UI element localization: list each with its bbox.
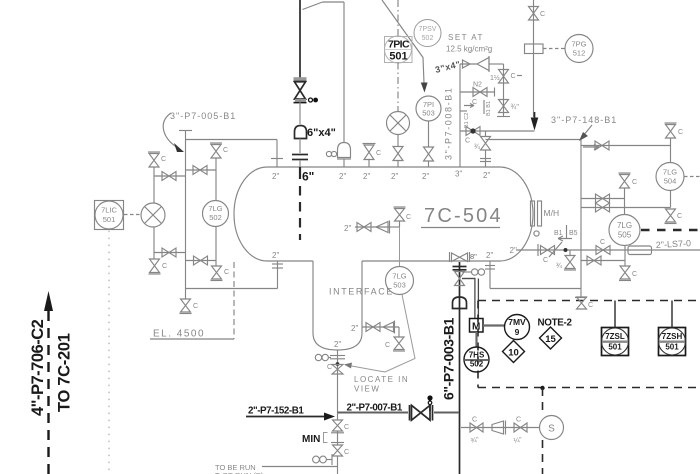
instrument 7LG 503	[386, 267, 414, 295]
svg-text:10: 10	[508, 347, 519, 358]
valve gate upper tap 7LG502	[186, 166, 217, 175]
svg-text:501: 501	[608, 343, 622, 352]
valve gate lower tap 7LIC	[154, 248, 186, 257]
signal wire 7LIC to displacer	[124, 214, 141, 216]
svg-text:501: 501	[103, 215, 116, 224]
valve gate right outlet	[541, 246, 555, 265]
valve gate nozzle x398	[393, 135, 403, 168]
wire riser below valve	[299, 98, 301, 124]
valve capped C interface upper	[389, 207, 411, 227]
svg-text:7HS: 7HS	[469, 351, 485, 360]
wire psv outlet	[489, 63, 504, 65]
valve 1-1/2 C	[490, 70, 522, 84]
valve capped C vent x670	[665, 123, 684, 163]
signal wire dash-dot 7PIC to valve	[397, 63, 399, 112]
svg-text:2": 2"	[339, 172, 346, 181]
valve boot drain	[327, 364, 343, 374]
wire top tap y139 to nozzle	[186, 139, 278, 141]
wire 7LG504 lower leg	[670, 191, 672, 208]
svg-text:6": 6"	[302, 170, 314, 184]
svg-text:C: C	[162, 263, 167, 270]
instrument 7LG 502	[203, 201, 229, 227]
wire 7LG505 drain leg	[624, 246, 626, 267]
svg-text:¾: ¾	[556, 263, 562, 270]
valve capped C 7LG505 drain	[619, 266, 637, 281]
svg-text:C: C	[632, 271, 637, 278]
reducer cone test line	[492, 421, 506, 435]
signal wire dash-dot 7PIC above	[397, 0, 399, 36]
svg-text:3": 3"	[455, 170, 462, 179]
wire diagonal top	[382, 0, 424, 83]
wire check valve header y131	[460, 130, 535, 132]
svg-text:2": 2"	[334, 340, 341, 349]
internal dip pipe 6in dashed	[299, 167, 301, 240]
svg-text:2"-LS7-0: 2"-LS7-0	[656, 238, 692, 250]
svg-text:C: C	[465, 138, 470, 145]
switch 7ZSH 501	[659, 301, 686, 356]
svg-text:C: C	[543, 257, 548, 264]
valve 8in flush bottom	[450, 252, 478, 262]
wire to be run	[215, 463, 338, 474]
svg-text:2": 2"	[422, 172, 429, 181]
svg-text:B1 B1: B1 B1	[486, 101, 492, 116]
svg-text:S: S	[548, 424, 555, 435]
svg-text:C: C	[472, 417, 477, 424]
svg-text:2": 2"	[486, 251, 493, 260]
svg-text:N2: N2	[473, 82, 482, 89]
valve gate nozzle x428	[424, 121, 434, 167]
svg-text:C: C	[406, 214, 411, 221]
junction node boot drain	[336, 362, 340, 366]
svg-text:¾: ¾	[474, 144, 480, 151]
svg-text:2": 2"	[272, 251, 279, 260]
signal wire to 7PG512	[543, 48, 565, 50]
vessel boot	[313, 261, 362, 350]
svg-text:C: C	[376, 150, 381, 157]
vessel tag 7C-504	[421, 205, 503, 228]
wire 1.5in bypass vertical	[503, 64, 505, 117]
svg-text:7MV: 7MV	[508, 317, 526, 327]
svg-text:2"-P7-007-B1: 2"-P7-007-B1	[347, 403, 403, 414]
spectacle blind 6in	[462, 269, 485, 275]
svg-text:501: 501	[665, 343, 679, 352]
svg-text:7PSV: 7PSV	[419, 26, 437, 33]
wire upper tap y145	[581, 145, 671, 147]
instrument 7PIC 501 shared display	[385, 36, 413, 63]
svg-text:2": 2"	[510, 246, 517, 255]
instrument 7LG 505	[609, 215, 640, 246]
valve C 3/4 test	[470, 417, 483, 445]
svg-text:B5: B5	[569, 230, 578, 237]
valve MOV body on 6in line	[455, 272, 465, 286]
valve gate 2in main dark	[410, 395, 433, 420]
nozzle N1 2in	[271, 140, 283, 168]
svg-text:3"-P7-008-B1: 3"-P7-008-B1	[444, 87, 454, 160]
svg-text:MIN: MIN	[302, 434, 320, 445]
svg-text:7LIC: 7LIC	[101, 206, 117, 215]
svg-text:7PG: 7PG	[571, 40, 586, 49]
signal wire dashed solenoid	[542, 388, 544, 474]
valve C on flare header	[529, 7, 546, 21]
svg-text:NOTE-2: NOTE-2	[538, 318, 573, 329]
valve C 1/4 test	[513, 417, 527, 445]
wire vessel 2in outlet right	[516, 249, 700, 251]
note diamond 15	[540, 327, 562, 349]
svg-text:2": 2"	[391, 172, 398, 181]
svg-text:¾": ¾"	[511, 104, 520, 111]
svg-text:2": 2"	[272, 172, 279, 181]
wire 3in P7-008-B1 riser	[459, 64, 461, 167]
inline flame arrestor	[628, 246, 652, 255]
svg-text:1½: 1½	[490, 74, 500, 82]
flange tick right outlet	[537, 244, 539, 256]
svg-text:C: C	[677, 213, 682, 220]
signal wire bold dashed from 7LG505	[641, 229, 700, 232]
wire flare header x533	[533, 0, 535, 117]
flange pair on 6in line	[453, 267, 467, 270]
wire 7LG502 lower leg	[215, 227, 217, 267]
actuator M box	[470, 319, 484, 333]
valve capped C bottom of 7LIC leg	[149, 259, 168, 274]
svg-text:7LG: 7LG	[617, 221, 632, 230]
relief valve PSV 3x4	[460, 56, 489, 72]
svg-text:7LG: 7LG	[392, 272, 406, 281]
valve capped 3/4 drain below junction	[556, 250, 576, 270]
svg-text:C: C	[223, 147, 228, 154]
svg-text:LOCATE IN: LOCATE IN	[354, 375, 409, 384]
flange pair 6in nozzle dark	[292, 155, 308, 168]
inline orifice box	[525, 44, 544, 54]
wire 6in pump suction bold	[459, 262, 461, 474]
svg-text:2": 2"	[483, 171, 490, 180]
small nozzle circle on head	[534, 231, 539, 236]
leader arrow to standpipe	[163, 113, 184, 152]
svg-text:7PIC: 7PIC	[388, 39, 410, 51]
svg-text:3"-P7-005-B1: 3"-P7-005-B1	[170, 111, 236, 121]
spec break B1 B5	[549, 225, 578, 257]
note diamond 10	[503, 341, 525, 363]
wire to 7LG503	[399, 227, 401, 266]
svg-text:7LG: 7LG	[208, 204, 222, 213]
valve gate upper tap 7LIC	[154, 172, 186, 181]
svg-text:502: 502	[209, 213, 222, 222]
svg-text:C: C	[224, 269, 229, 276]
valve capped C min flow 1	[333, 413, 350, 432]
svg-text:VIEW: VIEW	[354, 385, 380, 394]
svg-text:9: 9	[515, 327, 520, 337]
svg-text:6"x4": 6"x4"	[307, 127, 336, 139]
signal wire dotted 7LIC down	[108, 231, 110, 474]
valve gate middle tap	[596, 194, 610, 203]
svg-text:C: C	[327, 364, 332, 371]
valve capped C top of 7LG502 leg	[210, 143, 228, 201]
wire right level standpipe	[575, 140, 587, 298]
wire 3in P7-148-B1 header y139	[486, 139, 582, 141]
valve gate upper tap	[595, 141, 609, 150]
instrument 7LG 504	[656, 163, 700, 191]
valve capped C drain x670	[665, 209, 683, 224]
svg-text:505: 505	[618, 231, 632, 240]
control valve 7PV circle-X	[387, 112, 410, 135]
svg-text:M/H: M/H	[544, 208, 560, 218]
junction node	[564, 248, 568, 252]
instrument 7MV 9	[483, 315, 530, 340]
valve gate 6in riser dark	[294, 79, 319, 103]
svg-text:15: 15	[545, 334, 556, 345]
instrument 7PSV 502	[414, 20, 441, 47]
line 2in-P7-152-B1 arrow	[246, 406, 335, 421]
valve capped C vent x624	[619, 173, 638, 215]
wire left standpipe 3in-P7-005	[179, 131, 192, 300]
svg-text:501: 501	[389, 51, 407, 63]
stem MOV to M	[462, 278, 478, 319]
wire 6in vent riser dark	[299, 0, 301, 79]
instrument 7PI 503	[416, 96, 441, 121]
svg-text:C: C	[588, 302, 593, 309]
valve 3/4 on bypass	[497, 100, 519, 117]
interface internal tap	[344, 221, 390, 234]
svg-text:C: C	[344, 424, 349, 431]
switch 7ZSL 501	[602, 301, 629, 356]
svg-text:C: C	[511, 73, 516, 80]
leader lines locate in view	[344, 295, 415, 373]
line 2in-P7-007-B1	[338, 403, 459, 414]
svg-text:C: C	[540, 11, 545, 18]
svg-text:B1: B1	[554, 230, 563, 237]
svg-text:2": 2"	[344, 224, 351, 233]
label EL. 4500	[150, 329, 234, 340]
svg-text:TO 7C-201: TO 7C-201	[56, 333, 74, 412]
check valve with ball	[465, 127, 480, 145]
valve capped C top of 7LIC leg	[148, 152, 166, 203]
valve N2 purge	[460, 82, 495, 107]
instrument 7PG 512	[565, 35, 593, 63]
svg-text:7LG: 7LG	[663, 168, 677, 177]
junction node dashed box	[540, 386, 544, 390]
wire 7LIC lower leg	[153, 227, 155, 259]
wire M to 7HS	[475, 332, 477, 347]
line 4in-P7-706-C2 dashed bold	[44, 291, 53, 474]
boot drain wire	[337, 350, 339, 413]
wire lower tap y207	[581, 207, 671, 209]
svg-text:C: C	[632, 179, 637, 186]
valve capped C boot tap drain	[385, 327, 405, 351]
svg-text:3"-P7-148-B1: 3"-P7-148-B1	[551, 115, 617, 125]
arrow bold into y131	[531, 112, 539, 131]
valve capped C min flow 2	[333, 445, 350, 456]
reducer 6"x4"	[295, 126, 307, 139]
svg-text:2"-P7-152-B1: 2"-P7-152-B1	[248, 406, 304, 417]
valve capped C standpipe bottom	[577, 297, 594, 309]
valve C on LS7 line	[596, 239, 610, 255]
valve gate y260	[587, 256, 601, 265]
leader arrow 7PSV to 7PI	[421, 83, 428, 93]
manhole M/H	[531, 201, 560, 226]
wire elevation dashed x234	[233, 262, 235, 339]
svg-text:12.5 kg/cm²g: 12.5 kg/cm²g	[446, 45, 492, 54]
svg-text:4"-P7-706-C2: 4"-P7-706-C2	[29, 319, 47, 416]
wire vessel bottom 2in to standpipe	[485, 261, 581, 289]
svg-text:502: 502	[470, 360, 484, 369]
svg-text:INTERFACE: INTERFACE	[329, 287, 394, 297]
wire to flange	[299, 139, 301, 154]
relief bell on nozzle x344	[326, 143, 351, 168]
solenoid S	[540, 416, 564, 440]
svg-text:512: 512	[573, 49, 586, 58]
svg-text:6"-P7-003-B1: 6"-P7-003-B1	[441, 317, 457, 400]
spec break marks on riser	[460, 100, 492, 128]
svg-text:SET AT: SET AT	[448, 33, 484, 42]
wire solenoid test line	[461, 427, 540, 429]
svg-text:2": 2"	[363, 172, 370, 181]
valve 3/4 nozzle x485	[474, 131, 491, 167]
svg-text:503: 503	[422, 109, 435, 118]
svg-text:8": 8"	[470, 252, 477, 261]
control box dashed border	[478, 301, 700, 388]
svg-text:C: C	[193, 303, 198, 310]
svg-text:B1 C2: B1 C2	[464, 113, 470, 128]
wire vent line x344 with top jog	[303, 2, 345, 142]
svg-text:2": 2"	[351, 324, 358, 333]
svg-text:C: C	[161, 156, 166, 163]
leader arrow to header corner	[579, 125, 599, 150]
svg-text:M: M	[472, 322, 480, 333]
wire lower LS tap y260	[581, 260, 625, 262]
svg-text:7C-504: 7C-504	[424, 205, 503, 227]
wire bottom tap y288	[186, 288, 278, 290]
svg-text:C: C	[385, 342, 390, 349]
svg-text:503: 503	[393, 281, 406, 290]
CO spectacle	[313, 454, 338, 474]
svg-text:C: C	[678, 129, 683, 136]
svg-text:C: C	[516, 417, 521, 424]
instrument 7HS 502	[464, 347, 489, 372]
nozzle bottom left 2in	[272, 261, 283, 289]
svg-text:504: 504	[664, 177, 677, 186]
spectacle blind	[315, 354, 331, 360]
valve capped C bottom of standpipe	[180, 299, 199, 314]
min spool	[302, 431, 344, 445]
svg-text:7ZSH: 7ZSH	[662, 332, 683, 341]
boot drain flanges	[330, 356, 345, 359]
valve capped C nozzle x369	[363, 144, 382, 168]
instrument 7LIC 501	[95, 201, 124, 230]
valve gate lower tap	[596, 203, 610, 212]
instrument level displacer circle-X	[141, 203, 165, 227]
wire middle tap y198	[581, 198, 625, 200]
svg-text:7ZSL: 7ZSL	[605, 332, 625, 341]
valve gate lower tap 7LG502	[186, 256, 217, 265]
boot side tap 2in	[351, 321, 399, 334]
vessel 7C-504	[234, 167, 533, 261]
valve capped C bottom of 7LG502 leg	[211, 266, 230, 281]
reducer on 6in line	[453, 297, 467, 309]
svg-text:C: C	[344, 449, 349, 456]
svg-text:C: C	[600, 239, 605, 246]
label LOCATE IN VIEW	[354, 375, 409, 394]
svg-text:502: 502	[422, 35, 434, 42]
note SET AT 12.5 kg/cm2g	[446, 33, 492, 54]
svg-text:EL. 4500: EL. 4500	[153, 329, 205, 340]
